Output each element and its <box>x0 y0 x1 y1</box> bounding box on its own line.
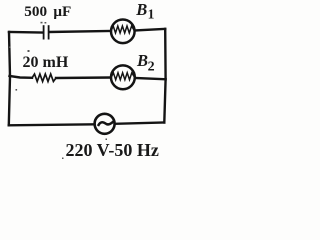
svg-text:500 μF: 500 μF <box>24 3 71 20</box>
wire bulb B1 to right <box>135 29 165 31</box>
wire top-left to capacitor <box>9 31 43 34</box>
svg-text:220 V-50 Hz: 220 V-50 Hz <box>66 140 159 160</box>
wire inductor to bulb B2 <box>56 76 111 79</box>
wire left vertical <box>9 32 10 125</box>
wire capacitor to bulb B1 <box>50 31 111 32</box>
svg-text:2: 2 <box>148 60 155 75</box>
ac source V1 220V 50Hz <box>95 114 115 134</box>
bulb B1 <box>111 20 135 44</box>
svg-text:B: B <box>135 0 147 19</box>
svg-text:B: B <box>136 51 148 70</box>
svg-text:20 mH: 20 mH <box>23 54 69 71</box>
capacitor C1 500 uF <box>44 26 49 38</box>
scan speckles <box>9 22 107 159</box>
wire right vertical <box>164 29 165 123</box>
wire bottom-left to ac source <box>9 124 95 125</box>
bulb B2 <box>111 65 135 89</box>
wire middle-left to inductor <box>10 76 33 78</box>
inductor L1 20 mH <box>32 74 56 82</box>
svg-text:1: 1 <box>148 7 155 22</box>
wire bulb B2 to right <box>135 78 166 79</box>
wire ac source to bottom-right <box>115 123 164 124</box>
